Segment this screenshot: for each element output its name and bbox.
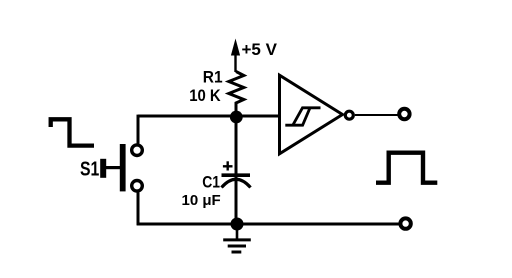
svg-text:10 K: 10 K [189,86,221,105]
svg-text:S1: S1 [80,159,99,181]
svg-text:C1: C1 [202,172,220,191]
svg-text:R1: R1 [203,67,223,86]
svg-text:10 μF: 10 μF [182,192,221,209]
svg-text:+5 V: +5 V [242,40,278,59]
